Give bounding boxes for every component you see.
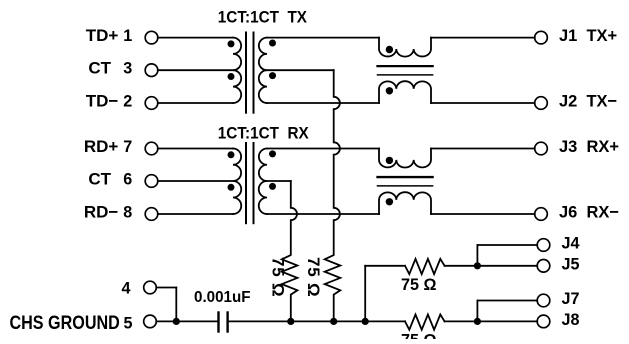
svg-text:RD−: RD− bbox=[84, 202, 119, 221]
svg-text:J1 TX+: J1 TX+ bbox=[559, 26, 617, 45]
svg-text:1: 1 bbox=[123, 26, 132, 45]
svg-text:75 Ω: 75 Ω bbox=[304, 257, 323, 297]
svg-text:CHS GROUND: CHS GROUND bbox=[9, 312, 119, 334]
svg-text:75 Ω: 75 Ω bbox=[401, 274, 436, 293]
svg-text:7: 7 bbox=[123, 137, 132, 156]
svg-text:J4: J4 bbox=[562, 233, 581, 252]
svg-text:J2 TX−: J2 TX− bbox=[559, 91, 617, 110]
svg-text:5: 5 bbox=[124, 313, 133, 332]
svg-text:J7: J7 bbox=[562, 289, 580, 308]
svg-text:4: 4 bbox=[122, 278, 132, 297]
svg-text:J6 RX−: J6 RX− bbox=[559, 202, 619, 221]
svg-text:2: 2 bbox=[123, 91, 132, 110]
svg-text:TD+: TD+ bbox=[86, 26, 119, 45]
svg-text:1CT:1CT TX: 1CT:1CT TX bbox=[218, 8, 307, 27]
svg-text:75 Ω: 75 Ω bbox=[401, 330, 436, 339]
svg-text:TD−: TD− bbox=[86, 91, 119, 110]
svg-text:J8: J8 bbox=[562, 310, 580, 329]
svg-text:1CT:1CT RX: 1CT:1CT RX bbox=[218, 124, 309, 143]
svg-text:0.001uF: 0.001uF bbox=[194, 289, 251, 306]
svg-text:6: 6 bbox=[123, 169, 132, 188]
svg-text:RD+: RD+ bbox=[84, 137, 119, 156]
svg-text:8: 8 bbox=[123, 202, 132, 221]
svg-text:75 Ω: 75 Ω bbox=[269, 257, 288, 297]
svg-text:3: 3 bbox=[123, 58, 132, 77]
svg-text:CT: CT bbox=[88, 59, 111, 78]
svg-text:J3 RX+: J3 RX+ bbox=[559, 137, 619, 156]
svg-text:CT: CT bbox=[88, 169, 111, 188]
svg-text:J5: J5 bbox=[562, 254, 580, 273]
